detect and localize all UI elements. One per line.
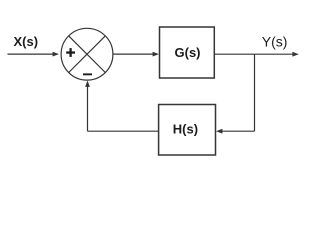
minus sign (summing junction - input) bbox=[83, 73, 92, 75]
wire summing junction to G(s) with arrowhead bbox=[113, 52, 159, 57]
svg-text:X(s): X(s) bbox=[14, 34, 39, 49]
block H(s) bbox=[159, 105, 216, 156]
wire feedback: down from branch point bbox=[254, 54, 256, 131]
wire G(s) to output Y(s) with arrowhead bbox=[214, 52, 298, 57]
wire feedback: up into summing junction with arrowhead bbox=[85, 81, 90, 132]
summing junction U1 (circle with X cross) bbox=[61, 28, 113, 80]
svg-text:G(s): G(s) bbox=[175, 45, 201, 60]
wire feedback: left into H(s) with arrowhead bbox=[216, 129, 255, 134]
block G(s) bbox=[160, 27, 215, 78]
svg-text:Y(s): Y(s) bbox=[262, 33, 288, 49]
wire input X(s) to summing junction with arrowhead bbox=[8, 52, 60, 57]
plus sign (summing junction + input) bbox=[66, 48, 75, 57]
wire H(s) output to left bbox=[88, 130, 159, 132]
svg-text:H(s): H(s) bbox=[173, 122, 198, 137]
